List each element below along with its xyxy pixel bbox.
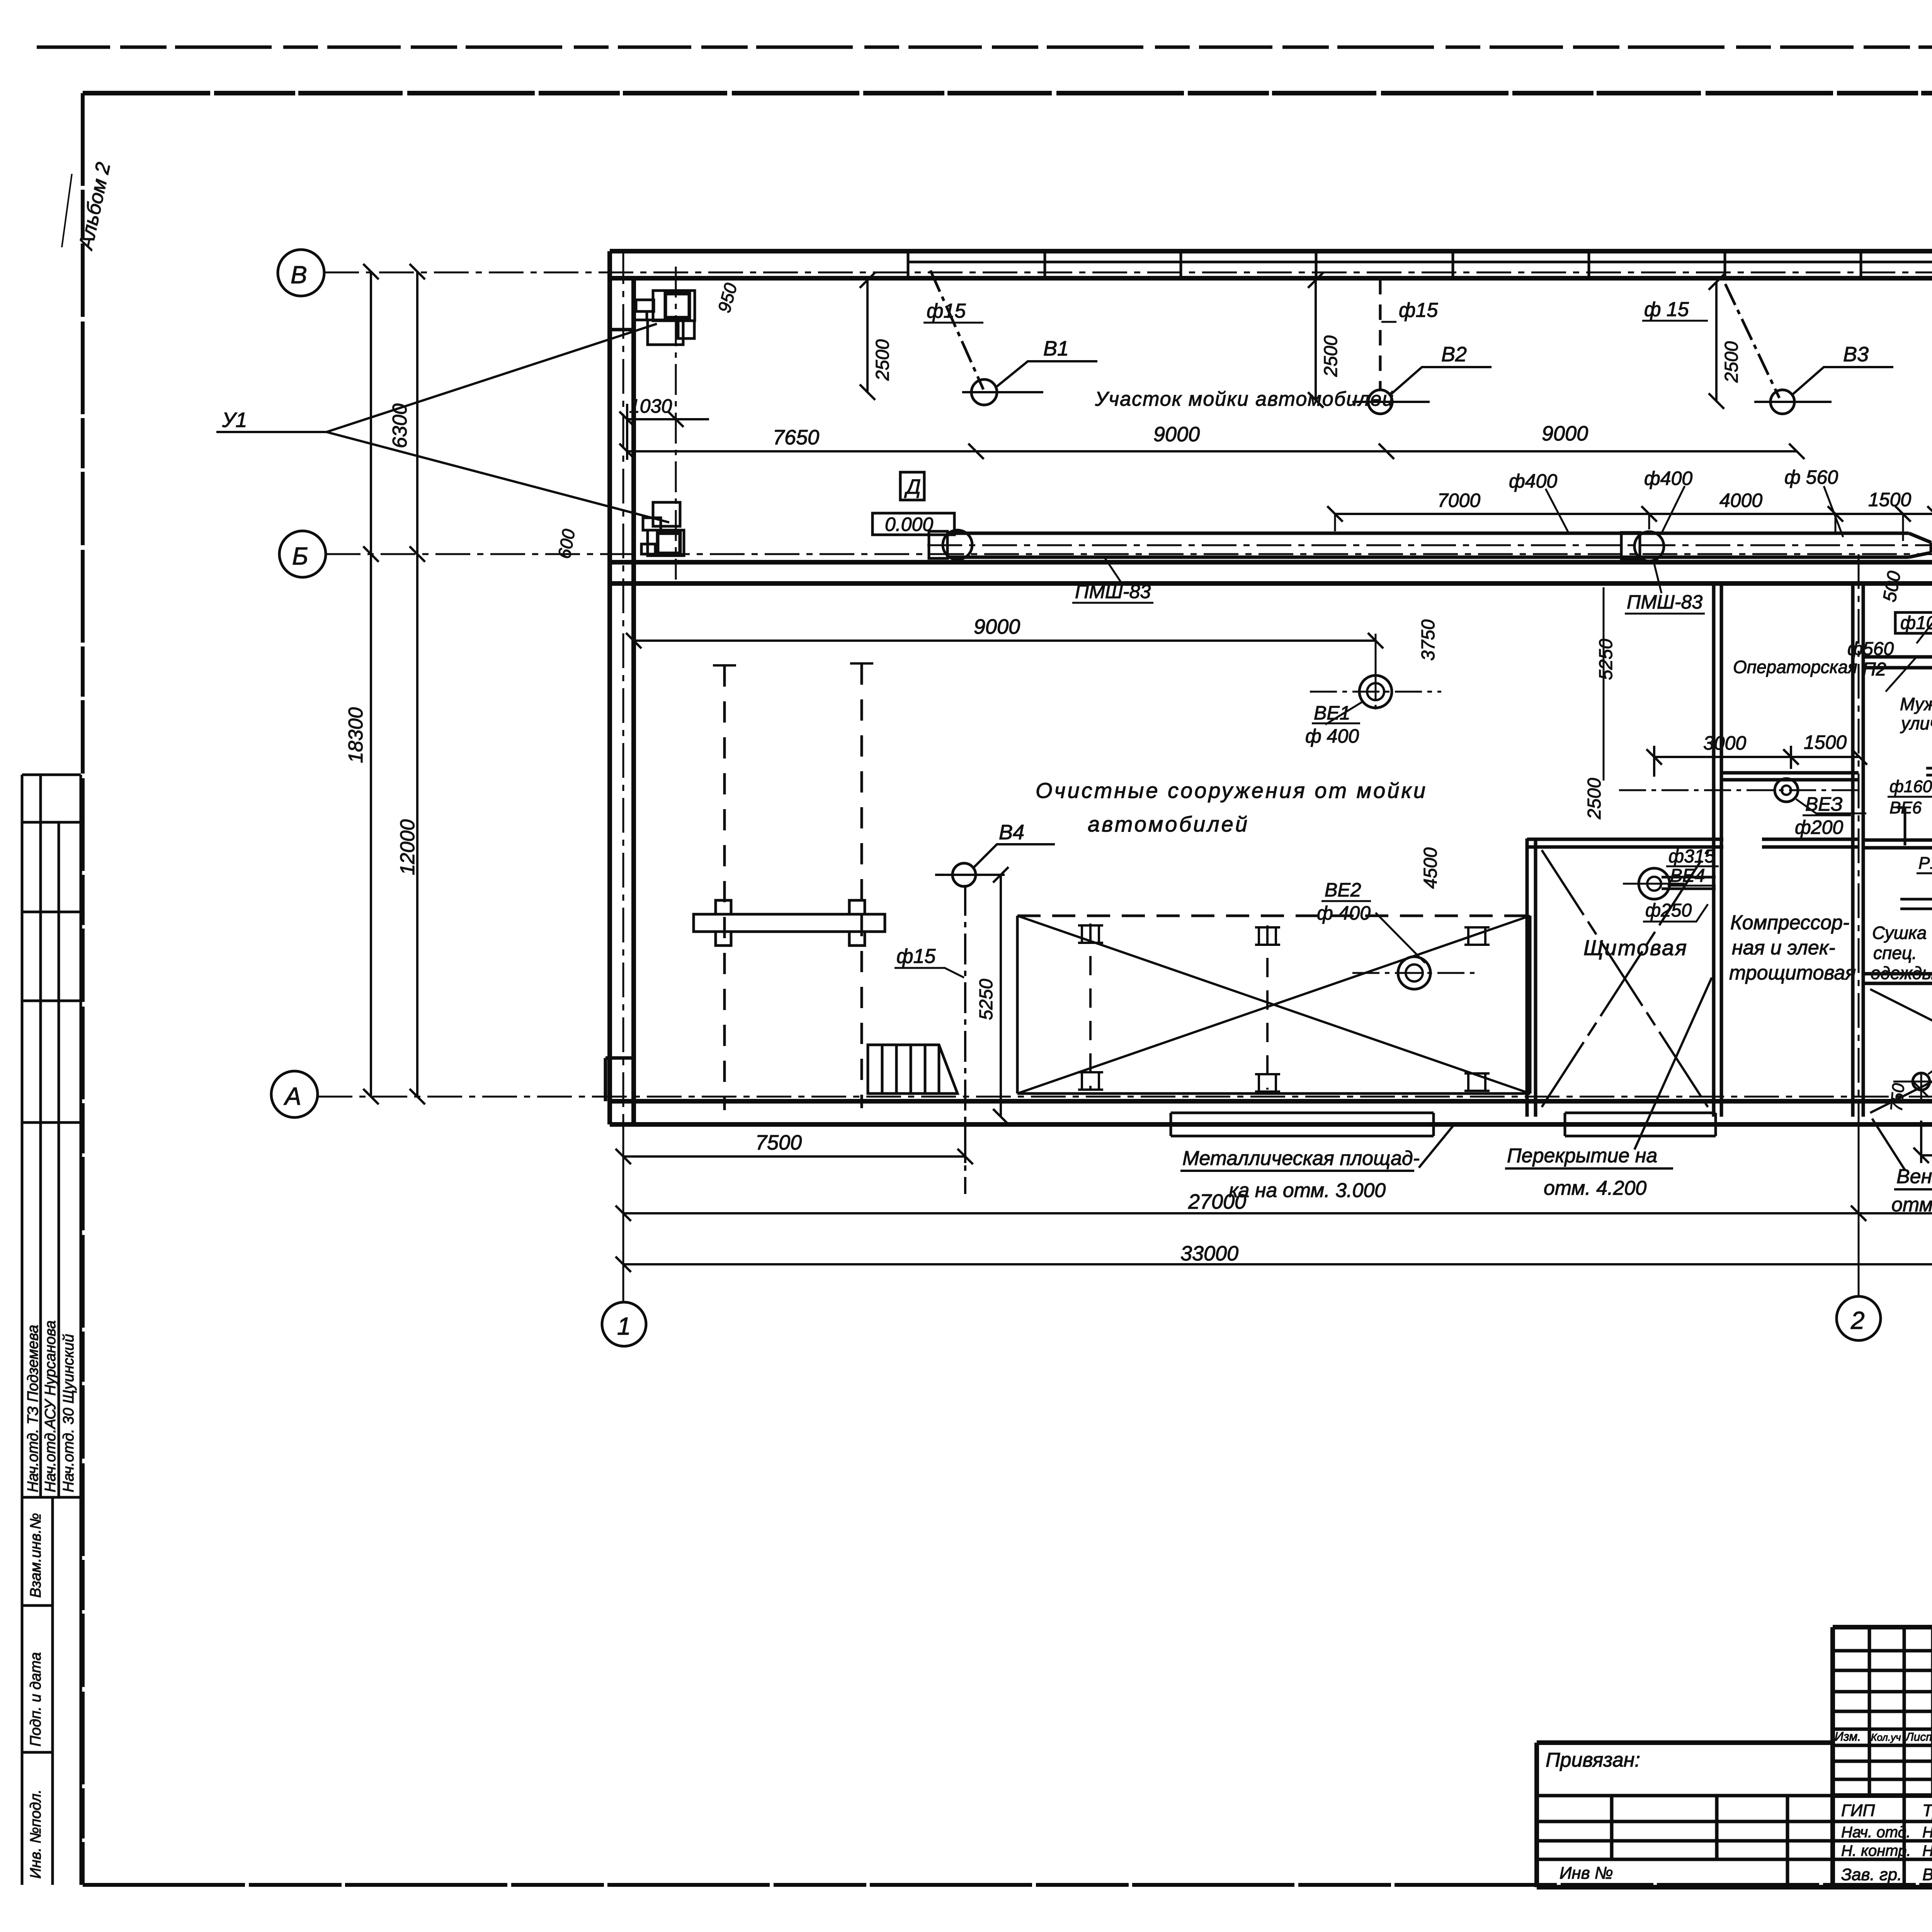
dim 9000 to BE1 <box>634 639 1376 642</box>
svg-text:Б: Б <box>292 542 308 570</box>
Компрессорная label <box>1729 912 1856 984</box>
svg-text:Н. контр.: Н. контр. <box>1841 1842 1911 1859</box>
fan BE2 <box>1398 957 1430 989</box>
svg-text:Нач. отд.: Нач. отд. <box>1841 1824 1911 1841</box>
top wall window band <box>908 261 1932 264</box>
wall between hall and operator rooms <box>1714 583 1721 1117</box>
bottom-left entry notch <box>605 1058 634 1101</box>
svg-text:уличной и дом: уличной и дом <box>1900 713 1932 733</box>
svg-text:В: В <box>291 261 307 289</box>
svg-text:Изм.: Изм. <box>1835 1730 1861 1743</box>
axis circle А <box>271 1071 318 1117</box>
top wall <box>610 249 1932 253</box>
fan ВЕ6 small <box>1913 1073 1930 1090</box>
svg-text:Зав. гр.: Зав. гр. <box>1841 1865 1902 1884</box>
svg-text:ф 400: ф 400 <box>1305 725 1359 747</box>
svg-text:спец.: спец. <box>1873 943 1917 963</box>
ladder <box>868 1045 957 1094</box>
dim 27000 + 6000 <box>623 1212 1932 1214</box>
main duct <box>947 533 1909 557</box>
fan ВЕ3 <box>1775 779 1798 802</box>
axis circle 2 <box>1837 1296 1881 1340</box>
rotated small dims 950/600 <box>554 281 1932 560</box>
svg-text:2500: 2500 <box>1721 341 1742 383</box>
svg-text:ф400: ф400 <box>1509 470 1557 492</box>
horizontal partition at y2180 <box>1527 839 1723 847</box>
Мужской гардероб уличной label <box>1900 694 1932 753</box>
inner frame left <box>81 93 85 1885</box>
svg-text:ПМШ-83: ПМШ-83 <box>1627 591 1702 613</box>
Shchitovaya left wall <box>1527 838 1536 1117</box>
Щитовая X-cross <box>1542 850 1708 1107</box>
svg-text:Инв. №подл.: Инв. №подл. <box>27 1789 44 1879</box>
axis line 2 <box>1858 554 1860 1296</box>
svg-text:1500: 1500 <box>1804 731 1847 753</box>
У1 label and leaders <box>216 324 669 522</box>
svg-text:ф 400: ф 400 <box>1317 902 1371 924</box>
svg-text:Нач.отд.АСУ Нурсанова: Нач.отд.АСУ Нурсанова <box>42 1320 59 1492</box>
svg-text:Нач.отд. ТЗ Подземева: Нач.отд. ТЗ Подземева <box>25 1325 41 1492</box>
svg-text:0.000: 0.000 <box>885 514 933 535</box>
svg-text:Очистные сооружения от мойки: Очистные сооружения от мойки <box>1036 778 1427 803</box>
svg-text:ВЕ2: ВЕ2 <box>1325 879 1361 901</box>
dim 3000 + 1500 <box>1646 746 1867 777</box>
svg-text:Низамова: Низамова <box>1922 1824 1932 1841</box>
svg-text:3000: 3000 <box>1703 732 1746 754</box>
bottom wall gate recesses <box>1171 1113 1434 1136</box>
svg-text:ВЕЗ: ВЕЗ <box>1805 793 1843 815</box>
svg-text:4500: 4500 <box>1420 847 1441 889</box>
fan ВЕ4 <box>1639 868 1670 899</box>
revision table <box>1830 1627 1835 1887</box>
inner frame top <box>83 91 1932 95</box>
valve В2 <box>1368 390 1392 414</box>
svg-text:В4: В4 <box>999 821 1024 844</box>
dim line above duct <box>1335 513 1932 515</box>
valve В1 <box>971 379 997 405</box>
dim 33000 <box>623 1263 1932 1265</box>
svg-text:ф 15: ф 15 <box>1644 298 1689 321</box>
svg-text:ф15: ф15 <box>1399 299 1438 321</box>
axis line А <box>318 1096 1932 1098</box>
svg-text:А: А <box>283 1082 301 1110</box>
svg-text:ф15: ф15 <box>927 300 966 322</box>
svg-text:9000: 9000 <box>1153 423 1200 446</box>
svg-text:Нач.отд. 30 Щуинский: Нач.отд. 30 Щуинский <box>60 1334 77 1492</box>
svg-text:Привязан:: Привязан: <box>1546 1749 1640 1771</box>
svg-text:ная и элек-: ная и элек- <box>1732 937 1835 959</box>
operator room south wall <box>1721 773 1859 780</box>
labels <box>1889 741 1932 872</box>
svg-text:2500: 2500 <box>1584 778 1605 820</box>
svg-text:П2: П2 <box>1862 659 1886 680</box>
axis circle Б <box>279 531 326 577</box>
svg-text:ф15: ф15 <box>896 945 936 968</box>
svg-text:7000: 7000 <box>1437 490 1480 511</box>
svg-text:750: 750 <box>1887 1082 1908 1112</box>
level mark 0.000 <box>872 513 954 535</box>
svg-text:отм. 3.000 лист 9: отм. 3.000 лист 9 <box>1891 1194 1932 1216</box>
dim 1030 left <box>619 404 709 460</box>
hall label <box>1036 778 1427 836</box>
small walls around <box>1926 768 1932 775</box>
2500 riser dims <box>860 272 1724 409</box>
axis line В <box>324 272 1932 274</box>
svg-text:ф 560: ф 560 <box>1784 466 1838 488</box>
axis line 1 <box>622 249 624 1302</box>
valve В3 <box>1770 390 1794 414</box>
svg-text:2500: 2500 <box>872 339 893 381</box>
svg-text:1500: 1500 <box>1868 489 1911 510</box>
fan BE1 <box>1359 675 1392 708</box>
svg-text:Сушка: Сушка <box>1872 923 1927 943</box>
bottom wall <box>610 1099 1932 1104</box>
svg-text:ВЕ6: ВЕ6 <box>1889 798 1922 817</box>
leaders for duct labels <box>1546 486 1843 537</box>
wall on axis 2 <box>1853 583 1863 1117</box>
svg-text:ф400: ф400 <box>1644 468 1692 489</box>
inner frame bottom <box>83 1883 1932 1887</box>
svg-text:У1: У1 <box>222 408 247 432</box>
duct elbow right <box>1909 533 1931 557</box>
dim line 7650 + 9000 + 9000 <box>619 444 1804 459</box>
svg-text:Низамова: Низамова <box>1922 1842 1932 1859</box>
middle wall on axis Б <box>610 560 1932 565</box>
П1 duct piece <box>1900 899 1932 909</box>
svg-text:12000: 12000 <box>396 819 419 875</box>
svg-text:1030: 1030 <box>629 395 672 417</box>
extension verticals <box>622 1117 624 1302</box>
svg-text:Кол.уч: Кол.уч <box>1871 1731 1901 1743</box>
svg-text:7500: 7500 <box>755 1131 802 1154</box>
svg-text:Д: Д <box>904 475 921 498</box>
axis circle В <box>278 250 324 296</box>
svg-text:5250: 5250 <box>1596 639 1616 680</box>
svg-text:автомобилей: автомобилей <box>1088 812 1249 836</box>
svg-text:Венткамера на: Венткамера на <box>1896 1165 1932 1188</box>
dim 7500 <box>623 1155 965 1158</box>
ПМШ-83 labels under duct <box>1075 581 1702 613</box>
svg-text:33000: 33000 <box>1180 1242 1238 1265</box>
svg-text:ГИП: ГИП <box>1841 1801 1875 1820</box>
svg-text:Взам.инв.№: Взам.инв.№ <box>27 1513 44 1598</box>
unit У1 bottom <box>641 502 684 556</box>
svg-text:отм. 4.200: отм. 4.200 <box>1544 1177 1646 1199</box>
svg-text:В2: В2 <box>1441 343 1467 366</box>
axis line Б <box>326 553 1932 555</box>
svg-text:2500: 2500 <box>1321 335 1341 377</box>
svg-text:Подп. и дата: Подп. и дата <box>27 1652 44 1747</box>
svg-text:9000: 9000 <box>974 615 1020 638</box>
top outer cut dashed line <box>37 46 1932 49</box>
svg-text:Мужской гардероб: Мужской гардероб <box>1900 694 1932 714</box>
svg-text:ВЕ1: ВЕ1 <box>1314 702 1350 724</box>
svg-text:4000: 4000 <box>1719 490 1762 511</box>
svg-text:Лист: Лист <box>1905 1731 1932 1743</box>
svg-text:ф200: ф200 <box>1795 816 1843 838</box>
svg-text:1: 1 <box>617 1312 631 1340</box>
unit У1 top <box>634 291 695 345</box>
fan 2 <box>1634 532 1664 561</box>
svg-text:В1: В1 <box>1043 337 1069 360</box>
svg-text:ка на отм. 3.000: ка на отм. 3.000 <box>1229 1179 1386 1202</box>
ИТП room <box>1870 989 1932 1113</box>
svg-text:Ващенко: Ващенко <box>1922 1865 1932 1884</box>
svg-text:18300: 18300 <box>345 707 367 763</box>
svg-text:трощитовая: трощитовая <box>1729 962 1856 984</box>
svg-text:Участок мойки автомобилей: Участок мойки автомобилей <box>1095 388 1394 410</box>
svg-text:ф315: ф315 <box>1668 846 1715 867</box>
svg-text:одежды: одежды <box>1871 963 1932 983</box>
svg-text:Инв №: Инв № <box>1560 1864 1613 1883</box>
svg-text:Металлическая площад-: Металлическая площад- <box>1182 1147 1420 1170</box>
svg-text:В3: В3 <box>1843 343 1869 366</box>
svg-text:2: 2 <box>1850 1306 1865 1334</box>
svg-text:Компрессор-: Компрессор- <box>1730 912 1849 934</box>
Сушка спец одежды <box>1871 923 1932 983</box>
valve В4 <box>952 863 976 886</box>
svg-text:Трушин: Трушин <box>1922 1801 1932 1820</box>
fan 1 <box>943 530 972 560</box>
left wall <box>607 251 612 1124</box>
svg-text:7650: 7650 <box>773 426 819 449</box>
svg-text:Операторская: Операторская <box>1733 657 1857 677</box>
platform with cross <box>1017 916 1530 1094</box>
riser labels <box>1847 570 1932 680</box>
level mark Д <box>900 472 924 500</box>
svg-text:ф160: ф160 <box>1889 777 1932 796</box>
axis circle 1 <box>602 1302 646 1346</box>
beam with plates <box>694 900 885 946</box>
svg-text:Р150: Р150 <box>1918 854 1932 872</box>
У1 axis line <box>675 267 677 580</box>
svg-text:3750: 3750 <box>1418 619 1439 661</box>
svg-text:ф560: ф560 <box>1847 639 1894 659</box>
equip dashed verticals <box>724 663 862 1110</box>
dim 4500 <box>1921 1154 1932 1156</box>
svg-text:9000: 9000 <box>1542 422 1588 445</box>
svg-text:5250: 5250 <box>976 979 997 1020</box>
right block walls <box>1863 657 1932 668</box>
svg-text:Щитовая: Щитовая <box>1583 935 1688 960</box>
svg-text:ПМШ-83: ПМШ-83 <box>1075 581 1151 602</box>
privyazan box <box>1537 1740 1833 1745</box>
